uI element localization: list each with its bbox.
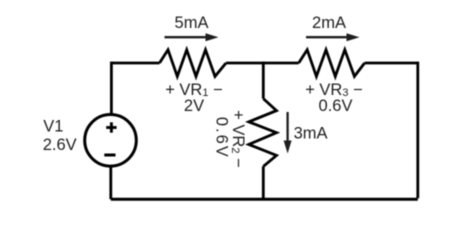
label +VR1- [165, 81, 223, 99]
wire bottom [111, 198, 418, 201]
svg-text:0.6V: 0.6V [319, 97, 353, 115]
svg-text:0.6V: 0.6V [212, 117, 230, 159]
wire middle bottom [262, 166, 265, 199]
resistor R1 [160, 50, 227, 77]
wire left bottom [109, 167, 112, 199]
resistor R2 [249, 99, 277, 167]
svg-text:V1: V1 [43, 118, 63, 136]
svg-text:2V: 2V [184, 97, 204, 115]
svg-text:2.6V: 2.6V [43, 136, 77, 154]
label 3mA [294, 125, 328, 143]
wire left top [110, 62, 113, 114]
current arrow I2 (3mA) [284, 112, 292, 154]
label +VR3- [305, 81, 363, 99]
label 5mA [175, 14, 209, 32]
label 2V [184, 97, 204, 115]
label 2mA [312, 14, 346, 32]
wire top-right segment [365, 62, 418, 65]
label 2.6V [43, 136, 77, 154]
resistor R3 [299, 50, 365, 77]
svg-text:2mA: 2mA [312, 14, 346, 32]
wire right edge [416, 62, 419, 199]
wire R1 to node A [226, 62, 299, 65]
svg-text:+ VR2 −: + VR2 − [229, 110, 247, 168]
source V1 minus sign [104, 154, 115, 157]
svg-text:5mA: 5mA [175, 14, 209, 32]
current arrow I1 (5mA) [165, 33, 219, 41]
label V1 [43, 118, 63, 136]
label 0.6V (R2, rotated) [212, 117, 230, 159]
wire middle top [262, 62, 265, 99]
current arrow I3 (2mA) [306, 33, 360, 41]
source V1 plus sign [106, 122, 116, 132]
label +VR2- (rotated) [229, 110, 247, 168]
source V1 circle [85, 115, 137, 167]
label 0.6V (R3) [319, 97, 353, 115]
svg-text:3mA: 3mA [294, 125, 328, 143]
wire top-left segment [111, 62, 159, 65]
